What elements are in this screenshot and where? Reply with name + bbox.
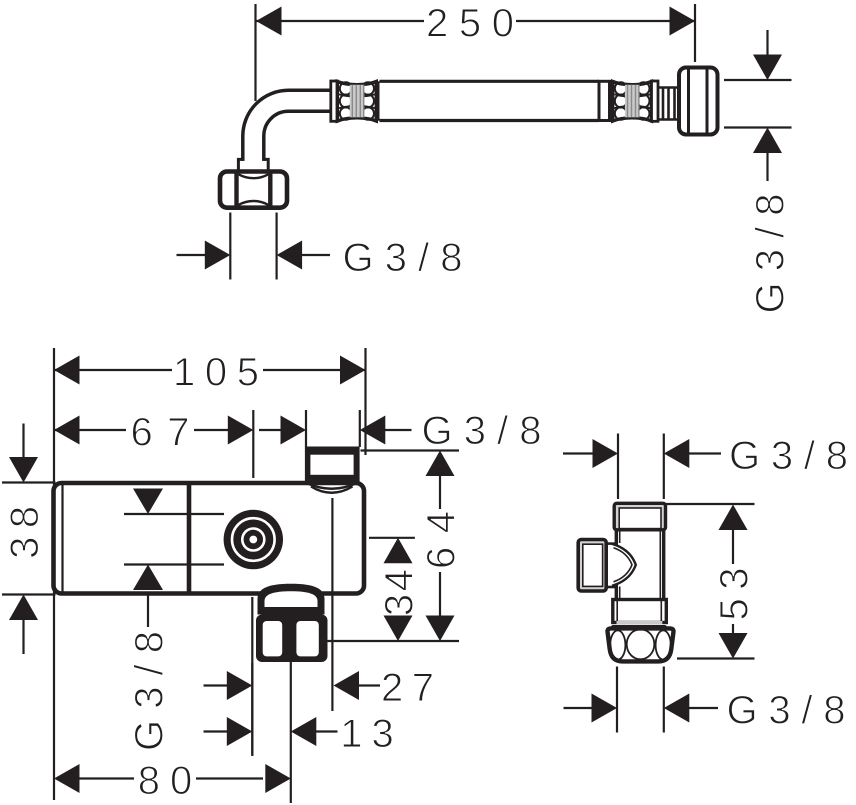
right ferrule body xyxy=(613,82,652,122)
svg-text:105: 105 xyxy=(173,351,259,395)
G3/8 left stub right xyxy=(302,254,330,256)
outlet G3/8 arrow right-pointing xyxy=(281,416,307,445)
hose elbow tube bore xyxy=(253,101,333,161)
svg-text:27: 27 xyxy=(381,666,434,710)
hose left nut facet right xyxy=(268,173,272,208)
dim 27 arrow left-pointing xyxy=(334,671,360,700)
dim 67 line left segment xyxy=(54,429,126,431)
G3/8 left arrow left-pointing xyxy=(277,241,303,270)
valve G3/8 top arrow right-pointing xyxy=(593,439,619,468)
dim 27 ext line left xyxy=(251,663,253,756)
dim 64 top ext line xyxy=(361,449,460,451)
dim 67 arrow right xyxy=(228,416,254,445)
right ferrule hatch lines xyxy=(628,85,639,118)
valve G3/8 bottom arrow left-pointing xyxy=(664,694,690,723)
bottom outlet dome xyxy=(258,584,325,615)
dim 53 arrow up xyxy=(719,505,748,531)
hose swivel nut facet right xyxy=(706,69,709,134)
dim 53 bottom ext line xyxy=(677,657,755,659)
top outlet block xyxy=(305,447,360,484)
hose left nut facet left xyxy=(234,173,238,208)
bottom outlet nut window right xyxy=(296,621,318,656)
valve collar xyxy=(613,600,667,623)
svg-text:G3/8: G3/8 xyxy=(128,631,172,751)
outlet G3/8 arrow left-pointing xyxy=(360,416,386,445)
G3/8 right leader bottom xyxy=(766,153,768,181)
right ferrule center hatch xyxy=(625,85,640,118)
dim 105 line right segment xyxy=(263,369,366,371)
svg-text:G3/8: G3/8 xyxy=(727,689,846,733)
left ferrule center hatch xyxy=(350,85,365,118)
left ferrule body xyxy=(337,82,376,122)
holder divider xyxy=(187,483,192,593)
svg-text:G3/8: G3/8 xyxy=(343,236,463,280)
dim 34 top ext line xyxy=(369,537,415,539)
valve tube inner lines xyxy=(620,532,661,599)
holder knob ring outer xyxy=(232,518,275,561)
left ferrule braid loops xyxy=(340,82,374,120)
left ferrule hatch lines xyxy=(352,85,363,118)
dim 38 top ext line xyxy=(2,481,56,483)
svg-text:G3/8: G3/8 xyxy=(749,194,793,314)
outlet centre line xyxy=(331,498,333,711)
valve G3/8 top stub left xyxy=(563,452,594,454)
valve collar inner walls xyxy=(617,601,661,622)
dim 53 top ext line xyxy=(666,503,755,505)
G3/8 left stub left xyxy=(177,254,206,256)
valve G3/8 bottom ext right xyxy=(663,667,665,733)
valve G3/8 bottom stub left xyxy=(564,707,593,709)
dim 80 line left segment xyxy=(79,777,134,779)
svg-text:67: 67 xyxy=(131,411,190,455)
dimension 250 line left segment xyxy=(256,20,424,22)
holder knob ring inner xyxy=(242,529,264,551)
dim 27 stub right xyxy=(359,684,380,686)
top outlet saddle arc inner xyxy=(311,487,353,493)
dimension 250 arrow right xyxy=(670,7,696,36)
holder body xyxy=(54,483,365,594)
hose swivel nut facet left xyxy=(687,69,690,134)
valve G3/8 top ext left xyxy=(617,434,619,500)
valve washer band xyxy=(611,625,667,630)
valve bottom nut xyxy=(608,628,674,661)
holder knob centre dot xyxy=(249,536,257,544)
G3/8 right dim line top xyxy=(724,79,792,81)
hose left nut collar steps xyxy=(238,159,268,172)
svg-text:34: 34 xyxy=(378,569,422,616)
bottom outlet centre line xyxy=(290,662,292,803)
right ferrule braid loops xyxy=(615,82,650,120)
svg-text:G3/8: G3/8 xyxy=(422,409,542,453)
hose swivel nut xyxy=(679,68,718,135)
holder dim 105 ext right xyxy=(364,348,366,455)
hose elbow tube outer xyxy=(253,101,332,161)
valve tube left wall xyxy=(615,530,618,600)
hose sleeve right xyxy=(599,81,610,120)
dim 64 leader bottom xyxy=(439,572,441,616)
valve nut lobe right xyxy=(656,630,671,659)
holder port line top xyxy=(124,513,224,515)
hose left nut collar clear xyxy=(237,161,270,172)
dimension 250 arrow left xyxy=(256,7,282,36)
svg-text:64: 64 xyxy=(420,511,464,569)
dim 67 arrow left xyxy=(54,416,80,445)
dim 13 arrow left-pointing xyxy=(291,717,317,746)
dim 13 stub left xyxy=(204,730,229,732)
valve side port bore xyxy=(583,544,603,586)
dim 105 line left segment xyxy=(54,369,172,371)
valve G3/8 bottom ext left xyxy=(616,667,618,733)
knob centre line below body xyxy=(251,597,253,755)
dim 34/64 bottom ext line xyxy=(327,640,459,642)
G3/8 left ext line 1 xyxy=(229,213,231,280)
G3/8 right arrow down xyxy=(753,55,782,81)
G3/8 left arrow right-pointing xyxy=(205,241,231,270)
G3/8 right dim line bottom xyxy=(724,126,792,128)
dim 53 leader top xyxy=(732,530,734,564)
valve G3/8 top arrow left-pointing xyxy=(664,439,690,468)
dimension 250 line right segment xyxy=(516,20,695,22)
hose body bottom line xyxy=(380,119,600,122)
dim 53 leader bottom xyxy=(732,624,734,634)
top outlet saddle arc outer xyxy=(307,483,358,489)
hose left nut chamfer arcs xyxy=(239,174,269,205)
dim 64 leader top xyxy=(439,476,441,509)
valve port-to-body joint bottom xyxy=(606,586,617,589)
dim 38 arrow down xyxy=(9,457,38,483)
threaded nipple xyxy=(658,88,679,120)
valve top port bore xyxy=(619,508,661,529)
valve port-to-body joint top xyxy=(606,542,617,545)
dim 64 arrow down xyxy=(426,616,455,642)
svg-text:G3/8: G3/8 xyxy=(729,434,848,478)
top outlet window xyxy=(310,455,353,475)
bottom outlet dome window xyxy=(265,591,318,607)
right ferrule braid rows xyxy=(614,94,650,108)
valve cone nose inner xyxy=(614,548,633,582)
dim 13 stub right xyxy=(316,730,338,732)
bottom outlet nut xyxy=(256,615,328,663)
valve G3/8 top ext right xyxy=(663,434,665,500)
holder body left inner line xyxy=(61,484,63,592)
dim 34 arrow up xyxy=(384,538,413,564)
svg-text:38: 38 xyxy=(3,506,47,559)
holder port arrow down xyxy=(133,489,163,515)
dim 67 ext line (knob centre) xyxy=(252,410,254,478)
hose body top line xyxy=(380,80,600,83)
G3/8 right arrow up xyxy=(753,128,782,154)
hose left nut xyxy=(220,172,287,208)
dim 27 stub left xyxy=(204,684,229,686)
valve collar shade band xyxy=(617,621,663,625)
dim 67 line right segment xyxy=(194,429,228,431)
valve tube right wall xyxy=(662,530,665,600)
holder port arrow up xyxy=(133,565,163,591)
left ferrule braid rows xyxy=(339,94,375,108)
hose elbow collar xyxy=(331,81,338,121)
valve side port xyxy=(578,540,606,592)
dim 80 arrow left-pointing xyxy=(54,764,80,793)
holder knob disc xyxy=(224,510,283,569)
svg-text:80: 80 xyxy=(138,759,193,803)
outlet G3/8 ext line left xyxy=(305,410,307,447)
outlet G3/8 ext line right xyxy=(359,410,361,447)
left ferrule end bar xyxy=(376,81,379,120)
valve G3/8 top stub right xyxy=(689,452,721,454)
dim 38 leader bottom xyxy=(22,620,24,654)
dim 105 arrow left xyxy=(54,356,80,385)
dim 105 arrow right xyxy=(340,356,366,385)
svg-text:250: 250 xyxy=(426,2,514,46)
right ferrule end bar xyxy=(610,81,613,120)
svg-text:13: 13 xyxy=(340,712,394,756)
valve top port xyxy=(614,503,665,530)
outlet G3/8 stub 1 xyxy=(259,429,283,431)
dim 53 arrow down xyxy=(719,633,748,659)
dim 27 arrow right-pointing xyxy=(227,671,253,700)
right ferrule collar xyxy=(652,81,659,121)
valve cone nose xyxy=(612,544,636,586)
dim 34 arrow down xyxy=(384,616,413,642)
dim 80 arrow right-pointing xyxy=(265,764,291,793)
dim 13 arrow right-pointing xyxy=(227,717,253,746)
G3/8 left ext line 2 xyxy=(276,213,278,280)
holder dim 105 ext left (long) xyxy=(53,348,55,800)
dimension 250 extension line right xyxy=(694,4,696,62)
valve nut lobe left xyxy=(610,630,625,659)
dim 80 line right segment xyxy=(196,777,263,779)
dim 38 bottom ext line xyxy=(2,593,56,595)
bottom outlet nut window left xyxy=(263,621,283,656)
outlet G3/8 stub 2 xyxy=(385,429,412,431)
dim 38 leader top xyxy=(22,424,24,459)
holder G3/8 leader xyxy=(147,595,149,627)
svg-text:53: 53 xyxy=(713,568,757,621)
valve nut lobe centre xyxy=(627,629,655,659)
dim 38 arrow up xyxy=(9,595,38,621)
dimension 250 extension line left xyxy=(254,4,256,101)
valve G3/8 bottom arrow right-pointing xyxy=(592,694,618,723)
valve G3/8 bottom stub right xyxy=(689,707,718,709)
dim 64 arrow up xyxy=(426,451,455,477)
holder port line bottom xyxy=(124,563,224,565)
G3/8 right leader top xyxy=(766,30,768,56)
